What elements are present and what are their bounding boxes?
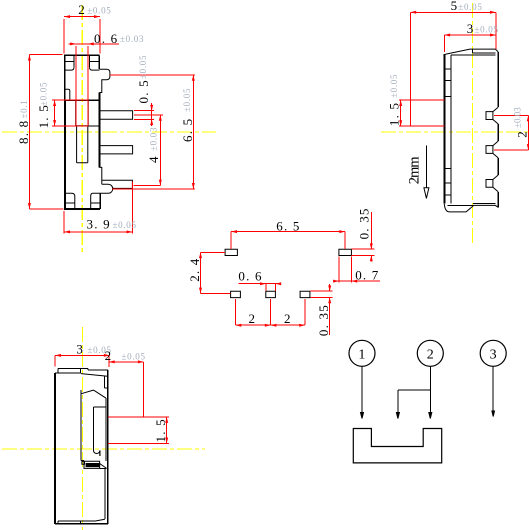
svg-text:0. 35: 0. 35 xyxy=(316,304,331,336)
label 6.5 (front) xyxy=(180,88,195,142)
label 5 (side) xyxy=(451,0,483,13)
pad bottom-left xyxy=(231,291,241,297)
top view top chamfer xyxy=(81,374,108,377)
front view solder foot xyxy=(102,180,133,188)
svg-text:±0.03: ±0.03 xyxy=(149,127,159,151)
front view body right edge mid xyxy=(98,93,100,168)
svg-text:±0.05: ±0.05 xyxy=(122,351,146,361)
dim 1.5 +/-0.05 (front knob height) xyxy=(52,100,88,126)
label 2 right (pattern) xyxy=(284,311,291,326)
label 2 (top view) xyxy=(105,348,146,363)
side view pin 3 notch xyxy=(486,175,498,192)
pad top-right xyxy=(339,249,352,255)
svg-text:3: 3 xyxy=(490,348,497,363)
dim 0.35 (top pad height) xyxy=(352,212,375,262)
svg-text:5: 5 xyxy=(451,0,458,13)
front view slider knob xyxy=(76,100,89,126)
front view top-left ear xyxy=(65,55,74,70)
top view top edge xyxy=(58,368,108,370)
svg-text:±0.03: ±0.03 xyxy=(513,107,523,128)
dim 0.35 (bottom pad height) xyxy=(311,284,333,335)
dim 5 +/-0.05 (side overall width) xyxy=(410,11,495,100)
dim 2 2 (pad pitch) xyxy=(236,299,306,327)
svg-text:0. 5: 0. 5 xyxy=(136,79,151,103)
dim 1.5 (top view slot) xyxy=(108,417,169,443)
dim 0.6 (mid pad width) xyxy=(238,282,281,291)
svg-text:2: 2 xyxy=(515,131,529,138)
pad bottom-mid xyxy=(266,291,276,297)
wire from terminal 2 xyxy=(429,366,432,418)
label 1.5 (top view) xyxy=(153,418,168,442)
dim 8.8 +/-0.1 (front overall height) xyxy=(28,55,64,209)
svg-text:0. 6: 0. 6 xyxy=(94,31,118,46)
svg-text:±0.05: ±0.05 xyxy=(389,74,399,98)
label 3 (side) xyxy=(467,21,499,36)
label 2mm (side) xyxy=(407,156,423,185)
front view vertical centerline xyxy=(81,5,83,255)
label 0.35 top (pattern) xyxy=(357,207,372,239)
dim 6.5 +/-0.05 (front bump to foot) xyxy=(110,75,195,189)
top view left edge xyxy=(54,373,56,524)
svg-text:3: 3 xyxy=(76,342,83,357)
svg-text:0. 6: 0. 6 xyxy=(238,269,262,284)
svg-text:±0.05: ±0.05 xyxy=(113,220,137,230)
terminal circle 1 xyxy=(349,340,375,366)
top view top-left tab xyxy=(55,368,81,373)
svg-text:±0.03: ±0.03 xyxy=(120,34,144,44)
dim 0.5 +/-0.05 (front pin thickness) xyxy=(134,103,154,126)
label 6.5 (pattern) xyxy=(276,219,300,234)
label 2.4 (pattern) xyxy=(187,257,202,281)
label 2 (front top) xyxy=(78,2,111,17)
dim 3.9 +/-0.05 (front body width) xyxy=(64,182,132,234)
front view body left edge xyxy=(64,55,67,209)
dim 2.4 (pad row gap) xyxy=(199,252,231,293)
svg-text:1. 5: 1. 5 xyxy=(386,102,401,126)
front view bottom-left ear xyxy=(65,193,75,209)
top view top-right pocket xyxy=(105,376,108,388)
label 3.9 (front) xyxy=(87,216,137,231)
svg-text:1. 5: 1. 5 xyxy=(36,104,51,128)
svg-text:±0.05: ±0.05 xyxy=(138,55,148,79)
top view slot xyxy=(94,398,106,461)
dim 2 +/-0.03 (side pin pitch) xyxy=(494,115,529,149)
side view vertical centerline xyxy=(471,3,473,246)
top view vertical centerline xyxy=(81,327,83,530)
wire from terminal 1 xyxy=(361,366,364,418)
front view pin 2 xyxy=(99,146,132,154)
label 0.5 (front) xyxy=(136,55,151,104)
front view pin 1 xyxy=(99,111,132,120)
top view knob tip xyxy=(94,450,100,456)
travel arrow 2mm xyxy=(424,146,429,199)
svg-text:2mm: 2mm xyxy=(407,156,423,185)
front view right step xyxy=(99,167,102,184)
svg-text:±0.05: ±0.05 xyxy=(39,82,49,106)
svg-text:±0.1: ±0.1 xyxy=(19,100,29,119)
label 2 (side right) xyxy=(513,107,529,138)
dim 0.6 +/-0.03 (front knob width) xyxy=(69,42,119,126)
front view top-right ear xyxy=(90,55,100,70)
svg-text:±0.05: ±0.05 xyxy=(475,25,499,35)
top view horizontal centerline xyxy=(2,448,205,450)
dim 6.5 (pad span) xyxy=(231,230,345,249)
top view knob base xyxy=(81,461,107,469)
side view pin 1 notch xyxy=(486,107,498,124)
pad top-left xyxy=(225,249,237,255)
svg-text:2: 2 xyxy=(284,311,291,326)
svg-text:4: 4 xyxy=(146,156,161,163)
dim 2 +/-0.05 (front top) xyxy=(64,15,100,53)
svg-text:2: 2 xyxy=(78,2,85,17)
svg-text:1: 1 xyxy=(358,348,365,363)
front view body top edge xyxy=(64,54,99,56)
svg-text:2. 4: 2. 4 xyxy=(187,257,202,281)
top view bottom inner lines xyxy=(58,519,105,524)
terminal circle 3 xyxy=(480,340,506,366)
front view slider slot xyxy=(77,126,88,163)
label 4 (front) xyxy=(146,127,161,163)
front view foot curl xyxy=(93,184,113,193)
front view horizontal centerline xyxy=(2,131,216,133)
label 3 (top view) xyxy=(76,342,111,357)
top view cover fold lines xyxy=(81,390,106,398)
wire branch terminal 2 xyxy=(396,390,430,419)
svg-text:0. 7: 0. 7 xyxy=(355,268,379,283)
svg-text:2: 2 xyxy=(249,311,256,326)
dim 3 +/-0.05 (top view width) xyxy=(55,354,109,367)
label 0.7 (pattern) xyxy=(355,268,379,283)
side view bottom edge xyxy=(444,204,498,212)
label 8.8 (front) xyxy=(16,100,31,145)
dim 3 +/-0.05 (side body width) xyxy=(444,34,496,53)
svg-text:3: 3 xyxy=(467,21,474,36)
label 1.5 (front) xyxy=(36,82,51,129)
svg-text:3. 9: 3. 9 xyxy=(87,216,111,231)
front view left notch xyxy=(65,89,70,100)
top view bottom edge xyxy=(55,523,108,525)
side view pin 2 notch xyxy=(486,141,498,158)
front view bottom-right ear xyxy=(91,193,100,209)
front view frame top line xyxy=(65,99,99,101)
label 0.6 (front) xyxy=(94,31,144,46)
svg-text:6. 5: 6. 5 xyxy=(276,219,300,234)
svg-text:8. 8: 8. 8 xyxy=(16,120,31,144)
side view top inner lines xyxy=(451,53,496,55)
svg-text:1. 5: 1. 5 xyxy=(153,418,168,442)
top view inner right line xyxy=(104,468,106,519)
dim 1.5 +/-0.05 (side knob) xyxy=(399,100,402,126)
side view right edge xyxy=(497,52,499,207)
svg-text:±0.05: ±0.05 xyxy=(87,5,111,15)
pad bottom-right xyxy=(300,291,310,297)
front view body bottom edge xyxy=(64,208,100,210)
svg-text:±0.05: ±0.05 xyxy=(182,88,192,112)
contact bracket xyxy=(353,429,441,463)
terminal circle 2 xyxy=(417,340,443,366)
top view opening left edge xyxy=(80,390,82,461)
label 0.35 bottom (pattern) xyxy=(316,304,331,336)
svg-text:2: 2 xyxy=(427,348,434,363)
dim 2 +/-0.05 (top view) xyxy=(109,360,144,417)
label 1.5 (side) xyxy=(386,74,401,126)
dim 4 +/-0.03 (front pin1 to foot) xyxy=(134,115,163,185)
front view body right edge upper xyxy=(98,55,100,69)
side view knob phantom xyxy=(399,100,444,126)
svg-text:0. 35: 0. 35 xyxy=(357,207,372,239)
top view right edge xyxy=(107,370,109,524)
svg-text:2: 2 xyxy=(105,348,112,363)
svg-text:±0.05: ±0.05 xyxy=(458,2,482,12)
front view right bump xyxy=(99,69,110,92)
front view frame right line xyxy=(88,125,99,127)
label 0.6 (pattern) xyxy=(238,269,262,284)
side view left edge xyxy=(444,54,451,204)
side view horizontal centerline xyxy=(381,131,529,133)
side view top edge xyxy=(445,49,498,54)
wire from terminal 3 xyxy=(492,366,495,416)
svg-text:6. 5: 6. 5 xyxy=(180,118,195,142)
label 2 left (pattern) xyxy=(249,311,256,326)
side view left edge ticks xyxy=(444,69,451,195)
dim 0.7 (top pad width) xyxy=(333,257,380,283)
